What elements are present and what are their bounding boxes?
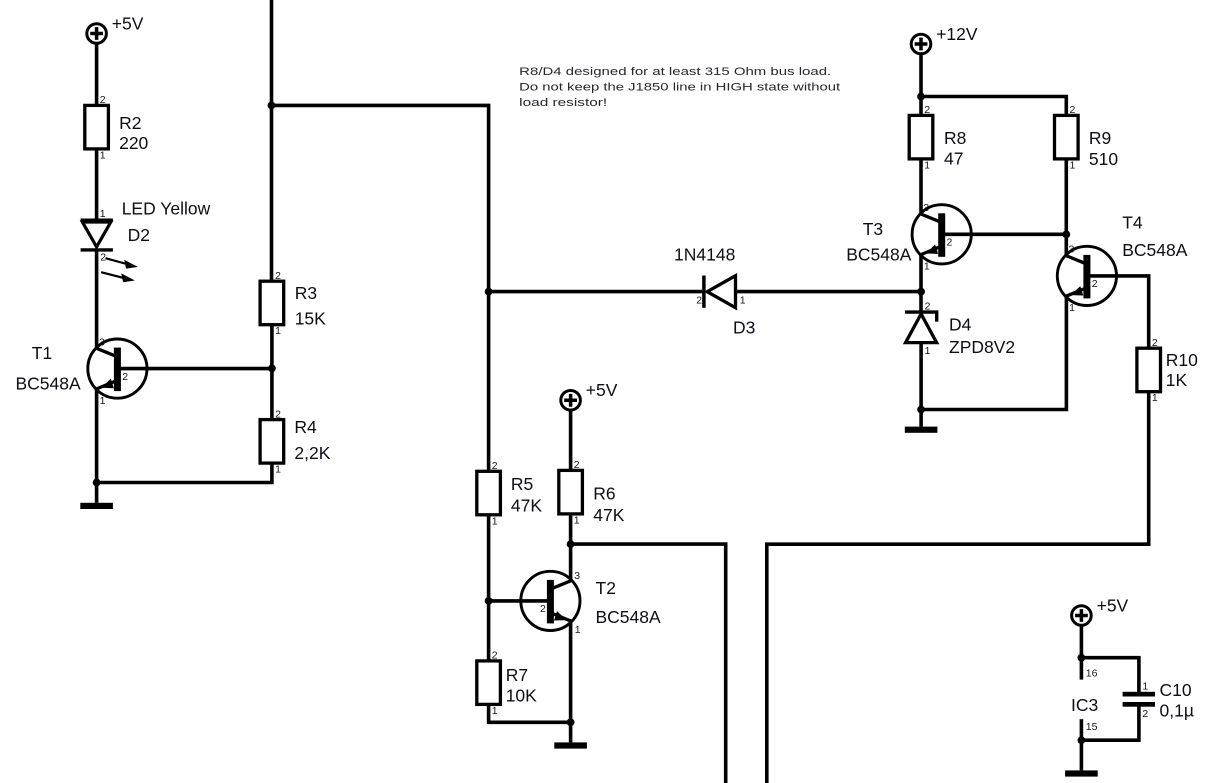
svg-text:1: 1 (1069, 302, 1075, 314)
svg-text:2: 2 (574, 459, 580, 471)
resistor R4 (260, 408, 331, 475)
svg-text:15: 15 (1086, 721, 1098, 733)
svg-text:3: 3 (923, 202, 929, 214)
wire +12V to R9 (921, 97, 1066, 116)
svg-text:1: 1 (575, 624, 581, 636)
junction D3 node (485, 288, 493, 296)
svg-text:2: 2 (696, 294, 702, 306)
svg-text:2: 2 (100, 251, 106, 263)
svg-text:1: 1 (100, 208, 106, 220)
svg-text:+5V: +5V (1097, 595, 1129, 615)
svg-text:D4: D4 (949, 315, 972, 335)
svg-text:1: 1 (100, 395, 106, 407)
resistor R8 (909, 104, 966, 171)
svg-text:IC3: IC3 (1071, 695, 1098, 715)
wire T1 emitter down (95, 389, 99, 483)
junction D4 ground node (917, 406, 925, 414)
wire C10 bottom to node (1081, 707, 1139, 741)
wire bus B up to R10 (767, 391, 1149, 783)
svg-text:47K: 47K (511, 495, 542, 515)
svg-text:R7: R7 (506, 665, 528, 685)
+5V supply P2 (561, 380, 618, 410)
wire T3 emitter down (919, 255, 923, 311)
svg-text:1: 1 (924, 261, 930, 273)
transistor T1 (88, 336, 147, 407)
svg-text:R9: R9 (1089, 128, 1111, 148)
svg-text:ZPD8V2: ZPD8V2 (949, 337, 1015, 357)
transistor T2 (521, 570, 581, 636)
LED D2 (81, 208, 138, 282)
IC3 pin 15 stub (1080, 719, 1084, 740)
svg-text:R6: R6 (593, 484, 615, 504)
wire R5 to R7 (487, 515, 491, 662)
wire T3 base to node (945, 233, 1067, 237)
svg-text:1: 1 (1152, 392, 1158, 404)
svg-text:C10: C10 (1160, 680, 1192, 700)
svg-text:1: 1 (275, 325, 281, 337)
svg-text:BC548A: BC548A (1122, 240, 1188, 260)
svg-text:2: 2 (1142, 708, 1148, 720)
svg-text:1K: 1K (1166, 370, 1188, 390)
svg-text:R4: R4 (294, 417, 317, 437)
wire R9 to T4 collector (1065, 159, 1069, 256)
svg-text:BC548A: BC548A (846, 245, 912, 265)
junction +12V (917, 93, 925, 101)
svg-text:2: 2 (1152, 337, 1158, 349)
svg-text:+5V: +5V (586, 380, 618, 400)
svg-text:2: 2 (925, 301, 931, 313)
transistor T3 (912, 202, 971, 273)
svg-text:2: 2 (100, 94, 106, 106)
wire P3 down (1080, 626, 1084, 680)
svg-text:T2: T2 (596, 578, 616, 598)
junction T2 base (485, 597, 493, 605)
junction D3/D4 node (917, 288, 925, 296)
svg-text:15K: 15K (295, 309, 326, 329)
resistor R10 (1137, 337, 1198, 404)
svg-text:R8/D4 designed for at least 31: R8/D4 designed for at least 315 Ohm bus … (519, 66, 831, 78)
ground GND3 (905, 410, 938, 433)
junction R6 bottom (567, 540, 575, 548)
svg-text:47: 47 (944, 149, 963, 169)
wire R6 to T2 collector (569, 514, 573, 581)
junction bus top (268, 102, 276, 110)
svg-text:2: 2 (492, 650, 498, 662)
capacitor C10 (1123, 681, 1155, 720)
ground GND2 (554, 722, 587, 748)
wire D3 to T3 emitter node (736, 290, 922, 294)
svg-text:R8: R8 (944, 128, 966, 148)
svg-text:3: 3 (574, 570, 580, 582)
svg-text:R2: R2 (119, 113, 141, 133)
svg-text:1: 1 (740, 294, 746, 306)
svg-text:2,2K: 2,2K (294, 443, 330, 463)
+12V supply (911, 24, 978, 54)
svg-text:2: 2 (1070, 104, 1076, 116)
wire R2 to D2 (95, 149, 99, 220)
svg-text:2: 2 (122, 371, 128, 383)
svg-text:D3: D3 (733, 318, 755, 338)
wire D4 to ground node (919, 344, 923, 410)
svg-text:2: 2 (1092, 278, 1098, 290)
svg-text:1N4148: 1N4148 (674, 245, 735, 265)
svg-text:T1: T1 (32, 343, 52, 363)
svg-text:+12V: +12V (936, 24, 978, 44)
svg-text:47K: 47K (593, 505, 624, 525)
resistor R3 (260, 270, 326, 337)
svg-text:T4: T4 (1122, 212, 1143, 232)
svg-text:R3: R3 (295, 283, 317, 303)
wire P1 to R2 (95, 44, 99, 107)
svg-text:1: 1 (275, 464, 281, 476)
svg-text:Do not keep the J1850 line in: Do not keep the J1850 line in HIGH state… (519, 82, 840, 94)
wire node to C10 top (1081, 658, 1139, 692)
svg-text:T3: T3 (863, 219, 883, 239)
transistor T4 (1057, 244, 1116, 315)
svg-text:BC548A: BC548A (596, 607, 662, 627)
wire T1 base to node (120, 367, 272, 371)
svg-text:BC548A: BC548A (16, 374, 82, 394)
wire T2 base (489, 599, 547, 603)
zener diode D4 ZPD8V2 (905, 301, 937, 358)
svg-text:load resistor!: load resistor! (519, 97, 607, 109)
wire gnd node to T4 emitter (921, 296, 1066, 409)
wire bus A down (571, 544, 726, 783)
svg-text:1: 1 (925, 345, 931, 357)
svg-text:16: 16 (1086, 667, 1098, 679)
svg-text:1: 1 (492, 705, 498, 717)
+5V supply P1 (87, 13, 144, 43)
svg-text:0,1µ: 0,1µ (1160, 700, 1194, 720)
junction T1 base node (268, 365, 276, 373)
svg-text:1: 1 (492, 515, 498, 527)
svg-text:2: 2 (540, 603, 546, 615)
wire R7 bottom to T2 emitter (489, 704, 571, 722)
resistor R2 (85, 94, 149, 161)
resistor R9 (1055, 104, 1119, 171)
junction IC3 pin16 node (1078, 654, 1086, 662)
svg-text:2: 2 (275, 408, 281, 420)
wire R3 to R4 (270, 324, 274, 420)
wire bus to R5 column (272, 105, 489, 471)
wire P2 to R6 (569, 410, 573, 471)
svg-text:1: 1 (924, 159, 930, 171)
wire R4 bottom to emitter (97, 463, 272, 483)
diode D3 1N4148 (696, 276, 746, 308)
resistor R7 (477, 650, 537, 717)
svg-text:10K: 10K (506, 686, 537, 706)
bus wire top (270, 0, 274, 282)
svg-text:3: 3 (99, 336, 105, 348)
ground GND4 (1065, 740, 1098, 776)
wire T4 base to R10 (1090, 276, 1149, 349)
svg-text:220: 220 (119, 133, 148, 153)
svg-text:D2: D2 (128, 225, 150, 245)
svg-text:1: 1 (574, 514, 580, 526)
resistor R5 (477, 460, 543, 527)
ground GND1 (80, 483, 113, 510)
junction T3 base / R9 (1062, 231, 1070, 239)
svg-text:1: 1 (1142, 681, 1148, 693)
junction T2 emitter (567, 718, 575, 726)
+5V supply P3 (1072, 595, 1129, 625)
svg-text:1: 1 (1070, 159, 1076, 171)
svg-text:LED Yellow: LED Yellow (122, 198, 211, 218)
wire R8 to T3 collector (919, 159, 923, 214)
svg-text:2: 2 (492, 460, 498, 472)
svg-text:2: 2 (924, 104, 930, 116)
svg-text:3: 3 (1069, 244, 1075, 256)
junction T1 emitter (93, 479, 101, 487)
junction IC3 pin15 node (1078, 736, 1086, 744)
svg-text:510: 510 (1089, 149, 1118, 169)
resistor R6 (559, 459, 625, 526)
svg-text:+5V: +5V (112, 13, 144, 33)
svg-text:R5: R5 (511, 474, 533, 494)
svg-text:1: 1 (100, 149, 106, 161)
wire T2 emitter down (569, 621, 573, 722)
svg-text:2: 2 (947, 237, 953, 249)
svg-text:2: 2 (275, 270, 281, 282)
wire P12 to R8 (919, 54, 923, 116)
svg-text:R10: R10 (1166, 350, 1198, 370)
wire D2 to T1 collector (95, 251, 99, 349)
wire node to D3 (489, 290, 703, 294)
